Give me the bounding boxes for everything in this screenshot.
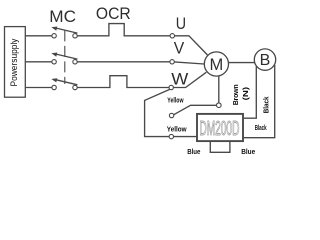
svg-text:DM200D: DM200D — [199, 117, 239, 140]
svg-text:M: M — [210, 56, 224, 74]
svg-text:Blue: Blue — [241, 149, 255, 156]
svg-text:U: U — [176, 14, 186, 33]
svg-text:Yellow: Yellow — [167, 97, 184, 104]
svg-text:(N): (N) — [243, 87, 250, 101]
svg-text:OCR: OCR — [96, 4, 131, 23]
svg-text:Black: Black — [263, 96, 270, 113]
svg-text:Blue: Blue — [187, 149, 200, 156]
svg-text:Powersupply: Powersupply — [9, 38, 19, 86]
svg-text:W: W — [171, 70, 188, 89]
svg-text:Yellow: Yellow — [167, 127, 187, 134]
svg-text:B: B — [260, 52, 271, 69]
svg-text:Brown: Brown — [233, 84, 240, 105]
svg-text:Black: Black — [255, 125, 267, 132]
svg-text:MC: MC — [49, 7, 76, 26]
svg-text:V: V — [174, 39, 185, 58]
